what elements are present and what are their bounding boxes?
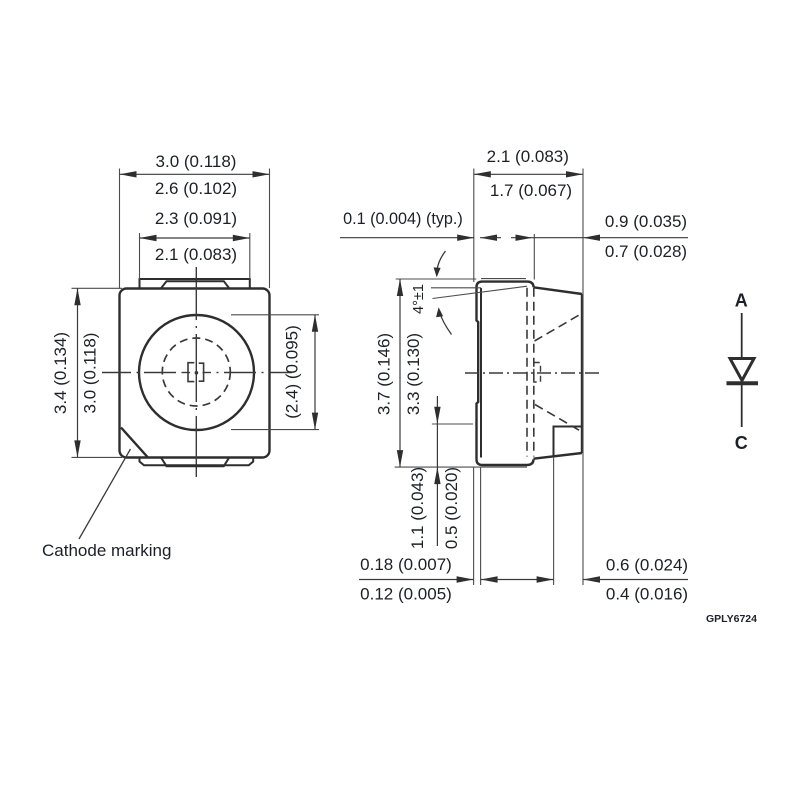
side view horizontal centerline bbox=[465, 372, 599, 374]
svg-text:3.0 (0.118): 3.0 (0.118) bbox=[80, 333, 99, 414]
svg-text:0.6 (0.024): 0.6 (0.024) bbox=[606, 556, 688, 575]
dashed inner circle bbox=[162, 338, 230, 406]
lead center-tab bottom edge / extension line bbox=[395, 466, 527, 468]
svg-text:Cathode marking: Cathode marking bbox=[42, 541, 171, 560]
hidden reflector cone lower dashed diagonal bbox=[535, 405, 581, 432]
4 degree angle arc with arrows bbox=[434, 251, 452, 335]
chip center dot bbox=[195, 371, 199, 375]
dimension (2.4) lens bbox=[312, 315, 318, 430]
top lead (anode tab) bbox=[140, 279, 250, 289]
svg-text:C: C bbox=[735, 433, 748, 453]
dimension 3.7/3.3 height bbox=[397, 279, 403, 467]
svg-text:0.5 (0.020): 0.5 (0.020) bbox=[442, 467, 461, 549]
svg-text:(2.4) (0.095): (2.4) (0.095) bbox=[282, 325, 301, 419]
extension lines of top view bbox=[72, 169, 320, 458]
horizontal centerline of top view bbox=[102, 372, 292, 374]
svg-text:4°±1: 4°±1 bbox=[411, 284, 427, 314]
svg-text:0.4 (0.016): 0.4 (0.016) bbox=[606, 585, 688, 604]
lens circle bbox=[139, 315, 254, 430]
svg-text:3.4 (0.134): 3.4 (0.134) bbox=[51, 332, 70, 414]
bottom lead (cathode tab) bbox=[140, 458, 254, 467]
chip square at center bbox=[188, 363, 204, 382]
dimension 1.1/0.5 stand-off bbox=[434, 396, 440, 546]
body right edge bbox=[581, 294, 583, 453]
cathode wire bbox=[741, 385, 743, 427]
bottom-right lead notch bbox=[554, 427, 583, 456]
dimension 2.3/2.1 width bbox=[140, 235, 250, 241]
svg-text:0.9 (0.035): 0.9 (0.035) bbox=[605, 212, 687, 231]
hidden reflector cone upper dashed diagonal bbox=[535, 315, 580, 341]
svg-text:0.7 (0.028): 0.7 (0.028) bbox=[605, 242, 687, 261]
package body outline bbox=[120, 289, 270, 458]
cathode marking leader line bbox=[79, 449, 131, 539]
hidden chip box bbox=[534, 363, 541, 383]
cathode marking chamfer line bbox=[121, 428, 148, 458]
dimension 0.1 typ / 0.9 line at y=237.7 bbox=[340, 235, 688, 241]
4 degree sloped line bbox=[433, 286, 528, 298]
svg-text:3.3 (0.130): 3.3 (0.130) bbox=[404, 333, 423, 415]
body top face (sloped) bbox=[534, 287, 583, 294]
hidden reflector line (left dashed vertical) bbox=[526, 288, 528, 457]
svg-text:2.1 (0.083): 2.1 (0.083) bbox=[155, 245, 237, 264]
hidden reflector line (right dashed vertical) bbox=[533, 288, 535, 457]
extension lines of side view bbox=[396, 169, 583, 586]
bottom dimension line 0.18 / 0.6 bbox=[359, 576, 688, 582]
lead wrapping left side bbox=[477, 282, 534, 465]
svg-text:GPLY6724: GPLY6724 bbox=[706, 613, 757, 625]
svg-text:1.7 (0.067): 1.7 (0.067) bbox=[490, 181, 572, 200]
dimension 3.4/3.0 height bbox=[74, 288, 80, 457]
svg-text:3.7 (0.146): 3.7 (0.146) bbox=[374, 333, 393, 415]
svg-text:0.18 (0.007): 0.18 (0.007) bbox=[360, 555, 452, 574]
svg-text:2.1 (0.083): 2.1 (0.083) bbox=[487, 147, 569, 166]
svg-text:0.1 (0.004) (typ.): 0.1 (0.004) (typ.) bbox=[343, 210, 463, 228]
vertical centerline of top view bbox=[195, 267, 197, 477]
svg-text:2.3 (0.091): 2.3 (0.091) bbox=[155, 209, 237, 228]
svg-text:3.0 (0.118): 3.0 (0.118) bbox=[156, 152, 237, 171]
svg-text:2.6 (0.102): 2.6 (0.102) bbox=[155, 179, 237, 198]
lead center-tab top edge (thin) bbox=[481, 278, 526, 280]
svg-text:1.1 (0.043): 1.1 (0.043) bbox=[408, 467, 427, 549]
cathode bar bbox=[727, 381, 759, 385]
4 degree reference horizontal line bbox=[431, 287, 481, 289]
anode wire bbox=[741, 313, 743, 358]
dimension 3.0/2.6 width (line with arrows) bbox=[120, 171, 270, 177]
svg-text:A: A bbox=[735, 291, 748, 311]
dimension 2.1/1.7 depth bbox=[474, 171, 583, 177]
body bottom face (sloped) bbox=[534, 453, 583, 459]
svg-text:0.12 (0.005): 0.12 (0.005) bbox=[360, 585, 452, 604]
diode triangle bbox=[730, 359, 754, 381]
body left edge bbox=[480, 288, 482, 458]
